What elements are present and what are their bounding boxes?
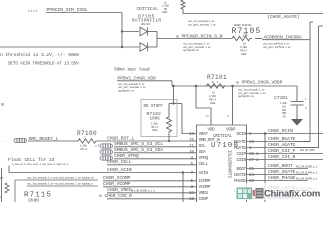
tag connector SCL <box>100 144 113 148</box>
svg-text:agchgante.av: agchgante.av <box>238 94 254 98</box>
wire ACDC net underline to vertical <box>262 39 310 41</box>
wire R7100 to pin15 <box>98 140 197 142</box>
svg-text:soc_con_avocado.1 av: soc_con_avocado.1 av <box>188 19 215 23</box>
value stack R7105 <box>240 43 248 56</box>
resistor R7115 <box>24 192 52 204</box>
svg-text:-RC: -RC <box>282 116 287 119</box>
svg-text:VREG: VREG <box>199 191 209 196</box>
net CHGR_BOOT label <box>268 163 293 169</box>
net CHGR_PHASE label <box>268 175 296 181</box>
value stack R7100 <box>80 143 102 150</box>
svg-text:ACIN: ACIN <box>199 171 209 176</box>
wire AMON row <box>247 197 301 199</box>
svg-text:CSOP: CSOP <box>199 197 209 202</box>
svg-text:soc_garc_avocado.1 av: soc_garc_avocado.1 av <box>118 85 146 89</box>
value fineprint D7105 <box>141 23 151 26</box>
wire VBAT drop <box>182 104 197 134</box>
net CHGR_CSO_R label <box>99 193 132 199</box>
node junction dot diode2 anode <box>121 46 123 48</box>
svg-text:0402: 0402 <box>162 11 168 14</box>
net CHGR_ACIN label <box>107 167 132 173</box>
svg-text:CHGR_UGATE: CHGR_UGATE <box>268 169 296 175</box>
pin name VDD <box>208 128 216 133</box>
svg-text:a PPBV1_CHGR_VDDP: a PPBV1_CHGR_VDDP <box>236 79 283 85</box>
tag connector SDA <box>100 150 113 154</box>
svg-text:1/16W: 1/16W <box>240 45 247 49</box>
svg-text:VBAT: VBAT <box>199 132 209 137</box>
wire divider row B underline <box>27 185 98 187</box>
label CRITICAL D7105 <box>132 7 161 24</box>
ref U7100 <box>211 142 239 150</box>
net CHGR_VCOMP label <box>103 181 131 187</box>
svg-text:13': 13' <box>0 176 4 180</box>
fineprint row above acin wire <box>12 162 69 166</box>
wire diode2 cathode <box>147 46 157 48</box>
wire SCL to pin11 <box>114 146 197 148</box>
svg-text:25: 25 <box>249 167 254 172</box>
svg-text:SDA: SDA <box>199 150 207 155</box>
wire SDA to pin10 <box>114 152 197 154</box>
resistor R7105 <box>230 27 262 41</box>
svg-text:0: 0 <box>1 102 4 108</box>
wire CSIN row <box>247 159 323 161</box>
svg-text:CHGR_CELL: CHGR_CELL <box>107 159 132 165</box>
svg-text:CHGR_VCOMP: CHGR_VCOMP <box>103 181 131 187</box>
net PPDCIN_SIM_ISOL label <box>47 7 88 13</box>
svg-text:50mA max load: 50mA max load <box>114 67 150 73</box>
net CHGR_AGATE label <box>268 142 296 148</box>
svg-text:CSIP: CSIP <box>237 152 247 157</box>
resistor left edge small <box>5 183 9 193</box>
wire CELL to pin6 <box>107 164 197 166</box>
svg-text:(CHGR_AGATE): (CHGR_AGATE) <box>267 14 300 20</box>
svg-text:28 a: 28 a <box>249 152 259 157</box>
svg-text:CSIN: CSIN <box>237 158 247 163</box>
watermark Chinafix.com text <box>264 189 320 200</box>
svg-text:soc_low_avocado.1 av: soc_low_avocado.1 av <box>238 87 265 91</box>
svg-text:soc_garc_aoffbnd.1 av: soc_garc_aoffbnd.1 av <box>263 45 291 49</box>
svg-text:NLG_SM_DCHGR_m.1: NLG_SM_DCHGR_m.1 <box>296 166 318 169</box>
svg-text:AM3-NC3: AM3-NC3 <box>141 23 151 26</box>
svg-text:soc_garc_avocado.1 av: soc_garc_avocado.1 av <box>183 45 211 49</box>
svg-text:VDD: VDD <box>208 128 216 133</box>
wire VDD main horizontal <box>172 85 297 87</box>
pin name VDDP <box>226 128 236 133</box>
svg-text:CHGR_DCIN: CHGR_DCIN <box>268 128 293 134</box>
wire BOOT row <box>247 168 309 170</box>
svg-text:a CHGR_CSO_R: a CHGR_CSO_R <box>99 193 132 199</box>
wire across R7102 top <box>169 103 182 105</box>
svg-text:agchgante.av: agchgante.av <box>118 89 134 93</box>
net PPBV1_CHGR_VDD label <box>118 76 156 82</box>
node dot A x173.5 <box>172 85 174 87</box>
net CHGR_UGATE label <box>268 169 296 175</box>
pin marks C7101 <box>305 98 307 110</box>
svg-text:w_low_av.1 acin_avoc.1 soc: w_low_av.1 acin_avoc.1 soc_avoc.1 agch.a… <box>12 162 69 166</box>
svg-text:NLG_SM_DCHGR_m.1: NLG_SM_DCHGR_m.1 <box>296 178 318 181</box>
fineprint divider row B <box>27 182 93 186</box>
svg-text:C7101: C7101 <box>274 95 288 101</box>
wire CSO to pin18 <box>107 198 197 200</box>
net SMBUS SCL label <box>114 141 163 147</box>
resistor R7101 <box>205 74 227 88</box>
pin number 17 <box>206 115 209 118</box>
wire LGATE row <box>247 190 309 192</box>
note 50mA max load <box>114 67 150 73</box>
svg-text:SMBUS_SMC_5_G3_SCL: SMBUS_SMC_5_G3_SCL <box>114 141 163 147</box>
resistor R7100 <box>76 130 98 143</box>
pin names right inside <box>234 132 247 202</box>
wire CHGR_ACIN long <box>9 172 197 174</box>
IC U7100 box <box>197 125 247 202</box>
fineprint UGATE right <box>296 172 318 175</box>
svg-text:24: 24 <box>249 173 254 178</box>
svg-text:SMBUS_SMC_5_G3_SDA: SMBUS_SMC_5_G3_SDA <box>114 147 163 153</box>
svg-text:NLG_SM_CSIP: NLG_SM_CSIP <box>300 149 315 152</box>
fineprint under ACDC label <box>263 41 291 48</box>
svg-text:SETS ACIN THRESHOLD AT 13.55V: SETS ACIN THRESHOLD AT 13.55V <box>8 62 79 67</box>
net CHGR_CSI_N label <box>268 154 296 160</box>
svg-text:15: 15 <box>189 138 194 143</box>
pin numbers left column <box>189 132 194 202</box>
pin names left inside <box>199 132 221 202</box>
svg-text:13: 13 <box>189 132 194 137</box>
capacitor C7101 <box>274 95 304 119</box>
node dot R7102 bottom on reset wire <box>168 140 170 142</box>
resistor R7102 <box>147 104 172 142</box>
tag connector SMC_RESET_L <box>14 138 27 142</box>
svg-text:soc_con_avocado.1 av: soc_con_avocado.1 av <box>183 41 210 45</box>
net CHGR_DCIN label <box>268 128 293 134</box>
svg-text:CHGR_BOOT: CHGR_BOOT <box>268 163 293 169</box>
svg-text:CHGR_AGATE: CHGR_AGATE <box>268 142 296 148</box>
svg-text:1/16W: 1/16W <box>151 121 158 125</box>
svg-text:CHGR_PHASE: CHGR_PHASE <box>268 175 296 181</box>
wire VDDP branch to pin8 <box>232 86 234 125</box>
wire PPBV1 label underline <box>117 80 172 82</box>
svg-text:soc_con_aoffbnd.1 av: soc_con_aoffbnd.1 av <box>263 41 290 45</box>
wire acin branch down <box>182 173 184 203</box>
svg-text:NLG_SM_DCHGR_m.1: NLG_SM_DCHGR_m.1 <box>296 172 318 175</box>
svg-text:a PPCHGR_DCIN_S_R: a PPCHGR_DCIN_S_R <box>176 34 223 40</box>
svg-text:NO STUFF: NO STUFF <box>144 105 164 109</box>
wire PPDCIN_SIM_ISOL horizontal <box>46 12 122 14</box>
node dot R7102 top <box>172 102 174 104</box>
svg-text:CHGR_CSI_N: CHGR_CSI_N <box>268 154 296 160</box>
fineprint under agate wire <box>188 19 216 27</box>
pin number 8 <box>228 115 230 118</box>
value stack C7101 <box>280 102 287 119</box>
wire vertical B right side <box>295 26 319 148</box>
svg-text:10: 10 <box>189 150 194 155</box>
svg-text:VCOMP: VCOMP <box>199 185 211 190</box>
net CHGR_CELL label <box>107 159 132 165</box>
svg-text:R7100: R7100 <box>77 130 97 137</box>
wire R7105 right <box>255 38 262 40</box>
ground symbol <box>291 119 303 126</box>
wire diode output to R7105 <box>157 38 230 40</box>
svg-text:soc_garc_avocado.1 av: soc_garc_avocado.1 av <box>238 91 266 95</box>
wire left edge vertical <box>1 168 3 202</box>
svg-text:CHGR_RST_L: CHGR_RST_L <box>107 136 135 142</box>
note SETS ACIN text <box>8 62 79 67</box>
net ACDC_DCIN label <box>264 35 302 41</box>
node dot C x232.5 <box>231 85 233 87</box>
wire from top resistor <box>181 0 323 14</box>
note ACIN threshold text <box>0 52 79 58</box>
svg-text:VFRQ: VFRQ <box>199 156 209 161</box>
svg-text:CHGR_VFRQ: CHGR_VFRQ <box>114 153 139 159</box>
svg-text:AGATE: AGATE <box>234 146 246 151</box>
wire CSIP row <box>247 153 323 155</box>
wire cap drop <box>296 86 298 102</box>
value stack R7101 <box>209 92 217 105</box>
svg-text:0402: 0402 <box>210 102 216 105</box>
svg-text:16: 16 <box>249 140 254 145</box>
net CHGR_LGATE label <box>268 185 296 191</box>
wire acin left riser <box>8 166 10 173</box>
value stack R7102 <box>151 121 159 132</box>
tag connector VFRQ <box>100 156 113 160</box>
svg-text:19: 19 <box>189 191 194 196</box>
svg-text:BGATE: BGATE <box>234 140 246 145</box>
svg-text:2k80: 2k80 <box>28 198 39 203</box>
svg-text:CHGR_VREG: CHGR_VREG <box>107 187 132 193</box>
svg-text:CELL: CELL <box>199 162 209 167</box>
svg-text:CHGR_BGATE: CHGR_BGATE <box>268 136 296 142</box>
net CHGR_CSI_P label <box>268 148 296 154</box>
watermark chinese block <box>256 188 264 199</box>
svg-text:ALG_SM_ACHGR_m.1 m: ALG_SM_ACHGR_m.1 m <box>131 190 155 193</box>
svg-text:BOOT: BOOT <box>237 167 247 172</box>
wire vertical B top tick <box>319 25 323 27</box>
svg-text:soc_low_avocado.1 w acin_mid_: soc_low_avocado.1 w acin_mid_avocado.1 a… <box>27 176 94 180</box>
net CHGR_VFRQ label <box>114 153 139 159</box>
svg-text:RM-LF: RM-LF <box>81 148 88 151</box>
wire ICOMP to pin5 <box>103 180 197 182</box>
net CHGR_AMON label <box>268 193 293 199</box>
svg-text:0402: 0402 <box>152 129 158 132</box>
wire AGATE row <box>247 147 319 149</box>
svg-text:CHGR_ACIB: CHGR_ACIB <box>107 167 132 173</box>
wire label riser <box>171 81 173 86</box>
fineprint left edge marks <box>0 176 4 199</box>
wire UGATE row <box>247 174 309 176</box>
wire BGATE row <box>247 141 311 143</box>
node dot DCIN <box>264 132 266 134</box>
wire branch to R7102 area <box>173 86 175 104</box>
node PPDCIN_SIM_ISOL tap marks <box>28 10 38 13</box>
wire long horizontal left rail <box>0 46 139 48</box>
wire DCIN branch down <box>264 134 266 203</box>
svg-text:- -: - - <box>2 141 7 144</box>
svg-text:ICOMP: ICOMP <box>199 179 211 184</box>
fineprint on VREG row <box>131 190 155 193</box>
fineprint LGATE right <box>296 188 318 191</box>
svg-text:UGATE: UGATE <box>234 173 246 178</box>
net CHGR_BGATE label <box>268 136 296 142</box>
tap dashes SMC row <box>2 141 7 144</box>
box NO STUFF around R7102 <box>141 100 177 137</box>
node dot acin branch <box>182 171 184 173</box>
svg-text:agchgante.av: agchgante.av <box>183 48 199 52</box>
svg-text:11: 11 <box>189 144 194 149</box>
wire divider row A underline <box>15 180 98 202</box>
svg-text:1/16W: 1/16W <box>209 94 216 98</box>
wire PHASE row <box>247 180 309 182</box>
wire VCOMP to pin3 <box>103 186 197 188</box>
wire vertical A top tick <box>310 21 313 23</box>
watermark band <box>233 183 323 200</box>
wire VFRQ to pin4 <box>114 158 197 160</box>
svg-text:18: 18 <box>189 197 194 202</box>
net PPCHGR_DCIN_S_R label <box>176 34 223 40</box>
svg-text:CHGR_ICOMP: CHGR_ICOMP <box>103 175 131 181</box>
node junction dot diode1 anode <box>121 30 123 32</box>
svg-text:soc_garc_avocado.1 av: soc_garc_avocado.1 av <box>188 22 216 26</box>
svg-text:R7101: R7101 <box>207 74 227 81</box>
svg-text:a a a a: a a a a <box>28 10 38 13</box>
fineprint PHASE right <box>296 178 318 181</box>
wire diode1 anode stub <box>122 31 139 33</box>
wire cathode join vertical <box>156 32 158 48</box>
label stray 0 left edge <box>1 102 4 108</box>
wire VDD branch to pin17 <box>196 86 211 125</box>
svg-text:1/16W: 1/16W <box>80 143 87 147</box>
part ISL6259AHRTZ vertical <box>227 150 232 179</box>
fineprint under PPBV1 label <box>118 82 146 93</box>
fineprint CSIP right <box>300 149 315 152</box>
diode D7105-B <box>140 43 148 52</box>
fineprint under PPCHGR label <box>183 41 211 52</box>
fineprint BOOT right <box>296 166 318 169</box>
note Float CELL <box>8 157 55 163</box>
diode D7105-A <box>140 27 148 36</box>
svg-text:soc_low_avocado.1 av: soc_low_avocado.1 av <box>118 82 145 86</box>
svg-text:0402: 0402 <box>241 53 247 56</box>
wire DCIN row <box>247 133 323 135</box>
svg-text:100K: 100K <box>150 118 161 122</box>
label NO STUFF <box>144 105 164 109</box>
watermark logo <box>237 188 256 200</box>
net CHGR_VREG label <box>107 187 132 193</box>
net (CHGR_AGATE) label <box>267 14 300 20</box>
svg-text:soc_low_avocado.1 av soc_mid_: soc_low_avocado.1 av soc_mid_avocado.1 a… <box>27 182 93 186</box>
svg-text:Chinafix.com: Chinafix.com <box>264 189 320 200</box>
net CHGR_RST_L label <box>107 136 135 142</box>
svg-text:R7102: R7102 <box>147 111 162 117</box>
resistor R7104 top edge (cut) <box>162 0 169 14</box>
wire VREG to pin19 <box>107 192 197 194</box>
net SMBUS SDA label <box>114 147 163 153</box>
net PPBV1_CHGR_VDDP label <box>236 79 283 85</box>
svg-text:VDDP: VDDP <box>226 128 236 133</box>
wire SMC_RESET_L to R7100 <box>28 140 76 142</box>
svg-text:n threshold is 3.2V, +/- 50mV: n threshold is 3.2V, +/- 50mV <box>0 52 79 58</box>
svg-text:SMB_RST_B: SMB_RST_B <box>199 138 221 143</box>
svg-text:DCIN: DCIN <box>237 132 247 137</box>
net SMC_RESET_L label <box>29 136 59 142</box>
fineprint under VDDP label <box>238 87 266 98</box>
label CRITICAL inside chip <box>213 134 232 139</box>
wire vertical A right side <box>295 22 310 142</box>
wire diode1 cathode <box>147 31 157 33</box>
svg-text:CRITICAL: CRITICAL <box>137 7 159 12</box>
svg-text:27 a: 27 a <box>249 158 259 163</box>
svg-text:CHGR_CSI_P: CHGR_CSI_P <box>268 148 296 154</box>
fineprint EFGE5_DCIN <box>234 24 252 27</box>
net CHGR_ICOMP label <box>103 175 131 181</box>
node dot B x196 <box>195 85 197 87</box>
svg-text:SCL: SCL <box>199 144 207 149</box>
svg-text:ISL6259AHRTZ: ISL6259AHRTZ <box>227 150 232 179</box>
pin numbers right column <box>249 132 259 202</box>
fineprint divider row A <box>27 176 94 180</box>
wire vertical to diode anodes <box>121 13 123 48</box>
